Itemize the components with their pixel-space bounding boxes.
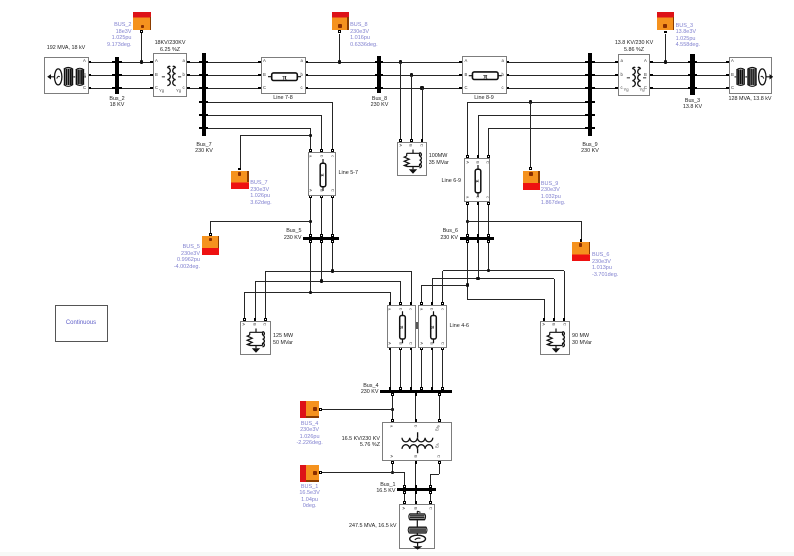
port [477,155,480,158]
junction net6 B [476,277,479,280]
port [592,74,595,77]
port BUS_9 [529,167,532,170]
wire bus8-line89 phase [383,88,460,89]
wire r6 drop to line69 C [488,128,489,156]
wire bus9 r5 [478,115,586,116]
wire net6 B [432,278,554,279]
wire bus1-gen1 [430,491,431,501]
port [264,318,267,321]
junction net6 A [466,283,469,286]
wire bus9 r6 [488,128,585,129]
busbar Bus_6 [460,237,494,240]
port [389,347,392,350]
port [459,74,462,77]
label Bus_6 name [388,228,458,241]
port [375,61,378,64]
wire bus5 phA down [310,240,311,292]
wire net6 A1 [422,285,468,286]
port [431,347,434,350]
port [199,127,202,130]
wire T3-bus3 phase [652,75,688,76]
wire line4x-bus4 [411,350,412,388]
port [420,387,423,390]
port [438,419,441,422]
wire BUS_2 tap [141,33,142,62]
port [615,74,618,77]
port [421,139,424,142]
wire bus3-gen3 phase [697,88,726,89]
port [585,61,588,64]
port [438,461,441,464]
wire line69-bus6 [478,204,479,234]
port [320,195,323,198]
wire line4x-bus4 [400,350,401,388]
wire load6 A drop [544,299,545,319]
port [415,393,418,396]
wire T3-bus3 phase [652,88,688,89]
wire T1 A jog [393,472,405,473]
port [650,74,653,77]
label Bus_3 name [658,98,728,111]
wire r6 drop to line57 a [310,128,311,149]
wire BUS_7 tap v [240,136,241,168]
wire net6 C [443,270,565,271]
wire r4 drop to line69 A [467,102,468,156]
svg-text:π: π [319,173,325,176]
busbar Bus_5 [303,237,339,240]
port [254,318,257,321]
port [585,101,588,104]
port [431,302,434,305]
port [585,127,588,130]
transformer T2 18KV/230KV [153,53,188,97]
wire line4x-bus4 [421,350,422,388]
wire bus9-T3 phase [594,75,616,76]
port [391,461,394,464]
wire line57-bus5 [332,197,333,234]
port [441,387,444,390]
wire line78-bus8 phase [308,75,375,76]
wire bus8-line89 phase [383,75,460,76]
port BUS_6 [580,239,583,242]
port [88,61,91,64]
port [88,87,91,90]
port BUS_2 [140,30,143,33]
port [585,114,588,117]
wire r5 drop to line69 B [478,115,479,156]
port [199,61,202,64]
scope BUS_7 [231,171,249,190]
junction BUS_7 tap [309,134,312,137]
wire T1 A down2 [404,472,405,485]
junction BUS_4 tap [391,408,394,411]
port [150,61,153,64]
port [331,240,334,243]
port [415,491,418,494]
generator G3 (128 MVA) [729,57,773,95]
port [441,302,444,305]
wire net5 A [245,292,391,293]
wire net5 B [255,281,401,282]
wire bus7-line78 phase [208,88,258,89]
port [389,387,392,390]
port [415,485,418,488]
generator G1 (247.5 MVA) [399,504,435,550]
scope BUS_9 [523,171,540,190]
wire bus9 r4 [467,102,585,103]
wire T1 A down [392,463,393,472]
port [305,87,308,90]
port [466,240,469,243]
wire BUS_8 tap [339,34,340,63]
wire bus7 r4 [208,102,333,103]
wire line78-bus8 phase [308,62,375,63]
port [206,61,209,64]
port [615,61,618,64]
wire load6 B drop [554,279,555,319]
shunt load 125MW 50MVar [240,321,271,356]
port [258,87,261,90]
port [592,114,595,117]
port [187,74,190,77]
junction BUS_3 tap [664,60,667,63]
port [592,87,595,90]
port [199,114,202,117]
busbar Bus_8 [377,56,381,93]
port [585,74,588,77]
port [381,87,384,90]
port [410,302,413,305]
wire bus4-T1 [415,393,416,419]
label load8 name [429,153,499,166]
wire T2-bus7 phase [189,88,200,89]
label load5 name [273,333,343,346]
wire line57-bus5 [310,197,311,234]
label Line 6-9 name [391,178,461,184]
scope BUS_4 [300,401,319,418]
wire line78-bus8 phase [308,88,375,89]
label G2 name [31,45,101,51]
wire line69-bus6 [488,204,489,234]
wire bus7-line78 phase [208,62,258,63]
scope BUS_1 [300,465,319,482]
wire BUS_7 tap h [240,135,310,136]
label G3 name [715,96,785,102]
busbar Bus_4 [380,390,452,393]
wire BUS_6 tap h [467,221,581,222]
wire load5 C drop [265,271,266,319]
wire bus4-T1 [439,393,440,419]
port [389,302,392,305]
port [331,149,334,152]
wire T1 C down [439,463,440,474]
wire bus2-T2 phase [122,88,151,89]
label Line 7-8 name [248,95,318,101]
port [688,87,691,90]
port [487,155,490,158]
port [187,61,190,64]
port BUS_8 [338,30,341,33]
port [506,74,509,77]
line block Line 6-9 [464,158,490,202]
port BUS_7 [238,168,241,171]
junction load8 tap [410,73,413,76]
busbar Bus_9 [588,53,592,136]
port [726,74,729,77]
port [243,318,246,321]
port [206,114,209,117]
port [399,347,402,350]
wire bus5 phC down [332,240,333,271]
wire line89-bus9 phase [509,88,586,89]
clipped label sliver Line 4-5 [416,322,418,329]
port [150,74,153,77]
label Line 4-6 name [450,323,520,329]
port [477,234,480,237]
label Line 5-7 name [339,170,409,176]
port [466,234,469,237]
port [403,491,406,494]
port [563,318,566,321]
port [206,127,209,130]
port [585,87,588,90]
wire gen2-bus2 phase [91,75,113,76]
port [112,61,115,64]
port [410,139,413,142]
wire line4x-bus4 [432,350,433,388]
port BUS_4 [319,408,322,411]
wire load6 C drop [564,271,565,319]
label Bus_1 name [326,482,396,495]
shunt load 100MW 35MVar [397,142,428,177]
wire net5 C [266,271,412,272]
junction BUS_6 tap [466,220,469,223]
port [199,101,202,104]
wire line57-bus5 [321,197,322,234]
port [199,74,202,77]
port [459,61,462,64]
scope BUS_5 [202,236,219,255]
label Bus_9 name [555,142,625,155]
port [506,87,509,90]
port [487,234,490,237]
port [487,202,490,205]
port [320,234,323,237]
wire bus1-gen1 [404,491,405,501]
wire line89-bus9 phase [509,75,586,76]
port [615,87,618,90]
port [650,87,653,90]
port [466,202,469,205]
wire bus7-line78 phase [208,75,258,76]
port [399,387,402,390]
wire bus1-gen1 [415,491,416,501]
port [381,74,384,77]
wire BUS_3 tap [665,34,666,62]
svg-text:π: π [430,326,436,329]
port [415,419,418,422]
port [726,61,729,64]
port [309,149,312,152]
wire to load8 [422,88,423,139]
wire load5 A drop [244,292,245,318]
port [119,61,122,64]
port [420,347,423,350]
port [206,87,209,90]
junction load8 tap [399,60,402,63]
scope BUS_2 [133,12,151,30]
port BUS_3 [664,31,667,34]
wire bus2-T2 phase [122,62,151,63]
port [466,155,469,158]
port [415,501,418,504]
wire line4x-bus4 [442,350,443,388]
svg-text:π: π [474,179,480,182]
wire bus9-T3 phase [594,88,616,89]
shunt load 90MW 30MVar [540,321,571,356]
scope BUS_3 [657,12,674,30]
port [206,101,209,104]
port [592,101,595,104]
line block Line 5-7 [308,152,336,196]
line block Line 8-9 [462,56,507,94]
wire bus3-gen3 phase [697,75,726,76]
port [391,419,394,422]
port [119,87,122,90]
port [592,127,595,130]
wire r5 drop to line57 b [321,115,322,149]
transformer T1 16.5KV/230KV [382,422,452,462]
port [477,202,480,205]
port [429,491,432,494]
wire bus7 r6 [208,128,311,129]
wire line46 b rise [432,279,433,303]
port [487,240,490,243]
busbar Bus_7 [202,53,206,136]
port [391,393,394,396]
wire BUS_9 tap v [530,102,531,168]
port [375,74,378,77]
busbar Bus_1 [397,488,436,491]
port [112,74,115,77]
port [650,61,653,64]
wire BUS_1 tap h [322,472,393,473]
port BUS_1 [319,471,322,474]
port [410,387,413,390]
wire r4 drop to line57 c [332,102,333,149]
port [305,61,308,64]
wire bus6 phA down [467,240,468,299]
label Bus_2 name [82,96,152,109]
port [199,87,202,90]
junction BUS_2 tap [140,60,143,63]
port BUS_5 [209,233,212,236]
port [553,318,556,321]
wire T1 C jog [431,474,440,475]
junction net5 A [309,291,312,294]
port [399,302,402,305]
wire net6 A2 [467,299,544,300]
port [431,387,434,390]
port [381,61,384,64]
wire BUS_6 tap v [581,221,582,239]
wire bus4-T1 [392,393,393,419]
bottom gray strip [0,552,794,556]
label T2 name [135,40,205,53]
port [309,234,312,237]
junction BUS_1 tap [391,471,394,474]
port [477,240,480,243]
junction BUS_5 tap [309,220,312,223]
label Bus_7 name [169,142,239,155]
port [403,485,406,488]
wire T1 C down2 [430,474,431,486]
label T3 name [599,40,669,53]
port [112,87,115,90]
wire to load8 [400,62,401,139]
line block Line 7-8 [261,57,306,95]
wire bus8-line89 phase [383,62,460,63]
wire BUS_4 tap h [322,409,393,410]
busbar Bus_3 [690,54,694,95]
wire to load8 [411,75,412,139]
port [331,234,334,237]
port [438,393,441,396]
wire gen2-bus2 phase [91,88,113,89]
generator G2 (192 MVA) [44,57,89,94]
wire load5 B drop [255,281,256,319]
wire bus7 r5 [208,115,322,116]
line block Line 4-6 [418,305,447,348]
port [694,74,697,77]
wire bus9-T3 phase [594,62,616,63]
wire bus6 phB down [478,240,479,279]
port [429,501,432,504]
junction net5 C [331,269,334,272]
port [543,318,546,321]
wire line46 a rise [421,285,422,303]
port [258,74,261,77]
port [119,74,122,77]
port [420,302,423,305]
junction net5 B [320,279,323,282]
label T1 name [310,436,380,449]
scope BUS_8 [332,12,349,30]
port [459,87,462,90]
port [403,501,406,504]
powergui block Continuous [55,305,108,342]
port [410,347,413,350]
port [415,461,418,464]
port [688,61,691,64]
transformer T3 13.8KV/230KV [618,54,650,96]
port [399,139,402,142]
port [506,61,509,64]
label Bus_4 name [309,383,379,396]
port [320,240,323,243]
label G1 name [307,523,397,529]
wire line89-bus9 phase [509,62,586,63]
wire T2-bus7 phase [189,75,200,76]
port [592,61,595,64]
wire line69-bus6 [467,204,468,234]
port [206,74,209,77]
label load6 name [572,333,642,346]
line block Line 4-5 [387,305,416,348]
port [441,347,444,350]
junction BUS_9 tap [529,100,532,103]
port [331,195,334,198]
